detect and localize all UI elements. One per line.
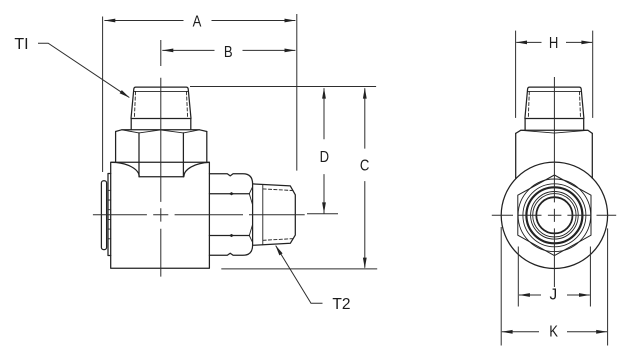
arrow A right: [285, 19, 296, 23]
arrow D top: [322, 88, 326, 99]
arrow B right: [285, 49, 296, 53]
dim H right extension: [592, 31, 594, 118]
end view: thread major thick circle: [526, 187, 582, 243]
svg-text:C: C: [360, 157, 369, 174]
end view: T1 stud neck: [525, 119, 584, 131]
svg-text:H: H: [549, 35, 558, 52]
end view labels: [549, 35, 558, 341]
arrow K right: [596, 330, 607, 334]
end view: T2 hexagon: [518, 175, 591, 256]
left view: T2 hex facet diamonds: [230, 192, 234, 236]
left view: horizontal centerline (T2 axis): [93, 214, 305, 216]
arrow H left: [516, 41, 527, 45]
arrow T2 leader: [275, 245, 282, 255]
end view: thread minor circle: [531, 192, 579, 240]
end view: upper hex chamfer V: [521, 130, 588, 133]
svg-text:J: J: [549, 286, 557, 303]
end view vertical centerline: [553, 77, 555, 287]
dim H line: [516, 41, 592, 43]
left view: T1 stud neck: [131, 119, 191, 130]
dim labels left view: [193, 13, 370, 174]
arrow B left: [162, 49, 173, 53]
left view: upper hex facet lines: [139, 133, 183, 177]
svg-text:A: A: [193, 13, 202, 30]
left view: upper hex nut sides: [116, 132, 207, 163]
left view: T2 hex facet lines: [209, 194, 249, 236]
dim B line: [162, 49, 295, 51]
svg-text:T2: T2: [332, 296, 350, 313]
T2 leader line: [276, 246, 323, 304]
dim K line: [502, 331, 607, 333]
arrow K left: [502, 330, 513, 334]
svg-text:B: B: [224, 44, 233, 61]
dim K right extension: [607, 228, 609, 345]
left view: T1 threaded stud outline: [131, 87, 191, 118]
left view: fitting body block: [111, 162, 210, 268]
arrow H right: [581, 41, 592, 45]
top extension line from stud top: [190, 86, 376, 88]
left view: cap flange: [108, 174, 111, 256]
arrow T1 leader: [120, 90, 130, 98]
left view: upper hex chamfer V lines: [122, 130, 200, 133]
left view: T1 stud chamfer line: [134, 90, 189, 92]
dimension lines group: [38, 14, 377, 303]
svg-text:K: K: [549, 324, 558, 341]
left view: end cap disc: [101, 181, 106, 250]
left view: upper hex top edge: [116, 130, 207, 132]
svg-text:TI: TI: [14, 36, 28, 53]
arrow C top: [363, 88, 367, 99]
left view: T1 stud thread dashed lines: [134, 92, 187, 119]
dim D bottom extension segment: [307, 213, 338, 215]
end view: T1 stud thread dashed lines: [528, 92, 580, 119]
dim A/B right extension line: [296, 14, 298, 171]
arrow D bottom: [322, 202, 326, 213]
left view: hex-to-body scallop arcs: [112, 162, 210, 176]
left view: T2 hex outline: [209, 174, 252, 256]
dim J line: [519, 294, 590, 296]
dim D line: [323, 88, 325, 213]
dim H left extension: [515, 31, 517, 118]
T1 leader line: [38, 43, 129, 97]
svg-text:D: D: [320, 149, 329, 166]
end view: hex chamfer inscribed circle: [518, 179, 591, 252]
dim J left extension: [517, 247, 519, 307]
end view dimension lines: [501, 31, 607, 346]
end view: T1 stud chamfer line: [527, 90, 581, 92]
bottom extension line from body bottom: [221, 268, 377, 270]
end view: upper hex sides: [516, 133, 593, 178]
left view: T2 threaded stud outline: [253, 184, 296, 245]
end view arrowheads: [502, 41, 608, 334]
end view: bore circle: [536, 197, 572, 233]
dim K left extension: [500, 227, 502, 346]
end view: T1 stud outline: [525, 87, 584, 118]
end view horizontal centerline: [492, 214, 616, 216]
dim A line: [104, 20, 295, 22]
arrow J left: [519, 293, 530, 297]
left view: T2 hex corner chevrons: [249, 187, 252, 242]
left view: vertical centerline (T1 axis): [93, 40, 305, 277]
arrow J right: [579, 293, 590, 297]
dim J right extension: [589, 247, 591, 307]
arrow C bottom: [363, 258, 367, 269]
left view: T2 stud thread-start line: [262, 184, 264, 244]
arrowheads: [104, 19, 366, 269]
end view: upper hex top edge: [516, 130, 593, 133]
dim C line: [364, 88, 366, 268]
end view: counterbore circle: [533, 194, 576, 237]
left view: flange serration ticks: [108, 190, 111, 239]
dim A left extension line: [102, 17, 104, 173]
end view: body cylinder circle: [501, 162, 607, 268]
left view: T2 stud thread dashed lines: [263, 189, 294, 240]
end view centerlines: [492, 77, 616, 287]
end view: thread OD circle: [523, 184, 586, 247]
arrow A left: [104, 19, 115, 23]
